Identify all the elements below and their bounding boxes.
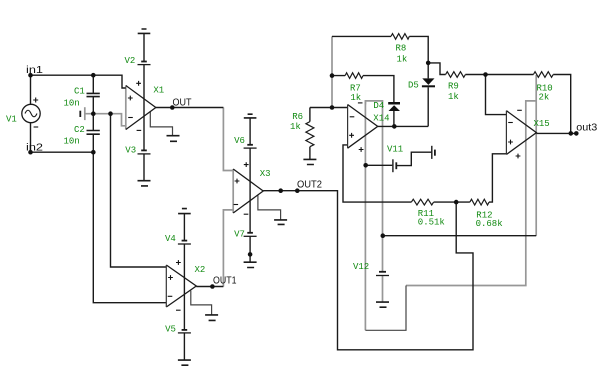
svg-text:1k: 1k <box>448 92 459 102</box>
svg-text:1k: 1k <box>397 55 408 65</box>
svg-text:X2: X2 <box>195 265 206 275</box>
svg-text:V3: V3 <box>125 146 136 156</box>
svg-text:R6: R6 <box>292 112 303 122</box>
svg-text:OUT: OUT <box>173 98 192 109</box>
svg-text:C2: C2 <box>74 125 85 135</box>
svg-text:10n: 10n <box>64 99 80 109</box>
svg-text:X1: X1 <box>153 86 164 96</box>
svg-text:R9: R9 <box>448 82 459 92</box>
svg-text:V2: V2 <box>125 56 136 66</box>
svg-text:OUT2: OUT2 <box>297 180 322 191</box>
svg-text:V6: V6 <box>234 136 245 146</box>
svg-text:X14: X14 <box>373 114 389 124</box>
svg-text:V4: V4 <box>165 234 176 244</box>
svg-text:V7: V7 <box>234 230 245 240</box>
svg-text:0.51k: 0.51k <box>418 218 445 228</box>
svg-text:X3: X3 <box>260 169 271 179</box>
svg-text:1k: 1k <box>350 93 361 103</box>
svg-text:V5: V5 <box>165 325 176 335</box>
svg-text:1k: 1k <box>290 122 301 132</box>
svg-text:R8: R8 <box>396 44 407 54</box>
svg-text:D5: D5 <box>408 81 419 91</box>
svg-text:10n: 10n <box>64 137 80 147</box>
svg-text:out3: out3 <box>576 123 597 134</box>
svg-text:V11: V11 <box>387 145 403 155</box>
svg-text:in1: in1 <box>26 65 44 76</box>
svg-text:C1: C1 <box>74 87 85 97</box>
svg-text:R7: R7 <box>350 84 361 94</box>
svg-text:OUT1: OUT1 <box>213 276 237 287</box>
svg-text:2k: 2k <box>539 93 550 103</box>
svg-text:D4: D4 <box>373 101 384 111</box>
svg-text:0.68k: 0.68k <box>476 219 503 229</box>
svg-text:V1: V1 <box>6 115 17 125</box>
svg-text:V12: V12 <box>353 262 369 272</box>
svg-text:X15: X15 <box>534 119 550 129</box>
svg-text:in2: in2 <box>26 143 44 154</box>
